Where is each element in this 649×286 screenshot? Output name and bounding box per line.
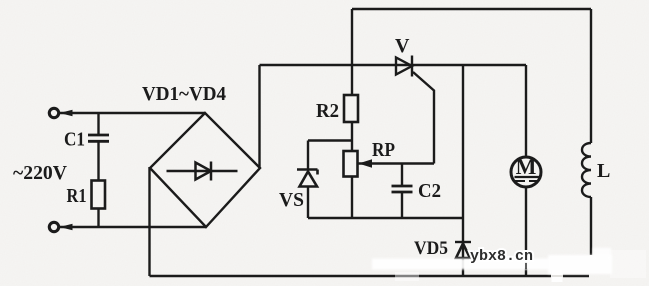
bottom rail — [150, 275, 590, 277]
wire chain vertical top — [351, 9, 353, 95]
bridge inner diode triangle — [196, 163, 212, 180]
bridge inner diode bar — [210, 162, 213, 181]
diode VD5 triangle — [456, 244, 470, 259]
top rail — [352, 8, 591, 10]
wire VS top lead — [307, 141, 309, 170]
terminal top-left — [49, 108, 58, 117]
resistor R2 — [344, 95, 358, 122]
bridge rectifier VD1~VD4 diamond — [150, 113, 260, 227]
wire VS branch horizontal — [308, 139, 352, 141]
watermark white gap on rail — [552, 270, 563, 282]
capacitor C2 — [392, 186, 413, 192]
svg-text:ybx8.cn: ybx8.cn — [470, 248, 533, 265]
thyristor V triangle — [396, 58, 412, 75]
diode VD5 bar — [455, 241, 471, 243]
wire bottom input — [59, 226, 207, 228]
watermark white blob top right — [593, 248, 611, 260]
watermark faint rail remnant — [552, 275, 564, 277]
wire RP wiper to gate — [359, 162, 435, 164]
wire C2 bottom lead — [401, 192, 403, 218]
svg-text:M: M — [516, 154, 537, 179]
RP wiper arrow — [359, 159, 373, 167]
svg-text:VS: VS — [279, 189, 304, 211]
watermark white band — [372, 259, 552, 270]
wire right vertical top — [590, 9, 592, 143]
wire C1 top lead — [97, 113, 99, 135]
svg-text:~220V: ~220V — [13, 162, 68, 184]
wire C2 top lead — [401, 164, 403, 187]
sub rail — [308, 217, 463, 219]
wire C1 to R1 — [97, 141, 99, 180]
wire bridge right corner up — [258, 65, 260, 168]
svg-text:R1: R1 — [67, 185, 87, 207]
wire RP bottom lead — [351, 177, 353, 219]
wire right vertical bottom — [590, 197, 592, 255]
svg-text:VD1~VD4: VD1~VD4 — [142, 83, 226, 105]
bridge inner diode line — [167, 170, 238, 172]
wire R2 to RP — [351, 122, 353, 151]
svg-text:R2: R2 — [316, 100, 339, 122]
svg-text:C2: C2 — [418, 180, 441, 202]
arrow on top input wire — [60, 110, 73, 116]
svg-text:L: L — [597, 160, 610, 182]
svg-text:RP: RP — [372, 139, 395, 161]
wire motor bottom lead — [525, 187, 527, 276]
zener VS triangle — [300, 172, 318, 187]
wire motor top lead — [525, 65, 527, 157]
thyristor V gate lead — [413, 72, 434, 164]
inductor L coil — [582, 143, 591, 197]
wire bridge left corner down — [148, 167, 150, 276]
wire VD5 vertical — [462, 65, 464, 276]
watermark white blob right — [548, 255, 612, 274]
capacitor C1 — [88, 135, 109, 141]
svg-text:VD5: VD5 — [414, 238, 448, 259]
watermark light patch on rail — [395, 272, 419, 281]
motor M dc solid line — [515, 176, 541, 178]
watermark light tint right — [610, 250, 646, 278]
svg-text:V: V — [395, 35, 410, 57]
motor M circle — [511, 157, 541, 187]
thyristor V cathode bar — [411, 56, 413, 77]
wire R1 bottom lead — [97, 209, 99, 228]
resistor R1 — [92, 181, 106, 209]
terminal bottom-left — [49, 222, 58, 231]
potentiometer RP body — [344, 151, 358, 177]
wire VS bottom lead — [307, 187, 309, 219]
wire top input — [59, 112, 206, 114]
svg-text:C1: C1 — [64, 129, 85, 151]
zener VS bar — [297, 170, 318, 175]
motor M dc dashed line — [515, 180, 541, 182]
arrow on bottom input wire — [60, 224, 73, 230]
wire anode rail (V-wire) — [260, 64, 527, 66]
wire stub motor lead in band — [525, 263, 527, 269]
